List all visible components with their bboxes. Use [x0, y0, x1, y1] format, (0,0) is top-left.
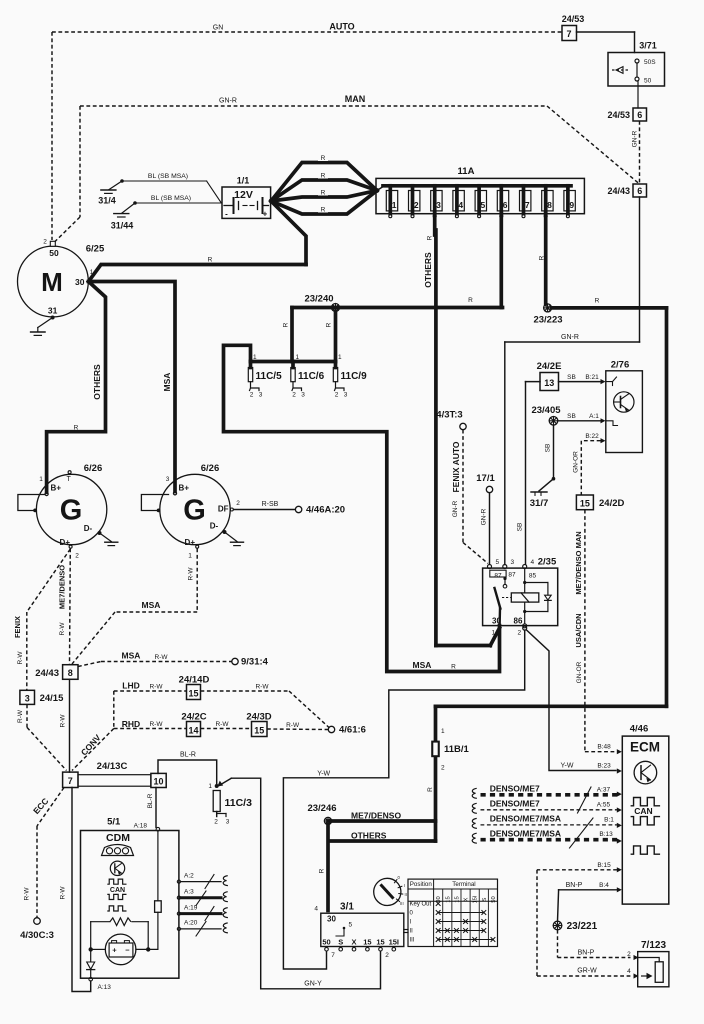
svg-text:15I: 15I [473, 895, 479, 903]
svg-text:11B/1: 11B/1 [444, 744, 470, 755]
svg-text:A:18: A:18 [134, 823, 148, 830]
svg-text:87: 87 [508, 571, 516, 578]
svg-text:SB: SB [516, 523, 523, 532]
svg-text:24/43: 24/43 [607, 186, 630, 196]
svg-text:11C/3: 11C/3 [225, 797, 253, 809]
svg-text:GN-OR: GN-OR [572, 451, 579, 473]
svg-text:11C/5: 11C/5 [256, 371, 283, 382]
svg-text:31: 31 [48, 306, 58, 316]
svg-text:+: + [112, 946, 117, 955]
svg-text:2: 2 [518, 630, 522, 637]
svg-text:GN-R: GN-R [632, 130, 639, 147]
svg-text:R: R [427, 235, 434, 240]
svg-text:ME7/DENSO: ME7/DENSO [58, 565, 67, 609]
svg-text:15: 15 [445, 896, 451, 902]
svg-text:R-W: R-W [17, 651, 24, 665]
svg-text:14: 14 [188, 726, 198, 736]
svg-text:23/246: 23/246 [307, 803, 336, 814]
svg-text:OTHERS: OTHERS [423, 252, 433, 288]
svg-text:11C/6: 11C/6 [298, 371, 325, 382]
svg-text:ECM: ECM [630, 740, 660, 755]
svg-text:4: 4 [531, 559, 535, 566]
svg-text:B:1: B:1 [604, 816, 614, 823]
svg-text:1: 1 [39, 476, 43, 483]
svg-text:ECC: ECC [31, 796, 50, 816]
svg-text:Y-W: Y-W [317, 771, 330, 778]
svg-text:D-: D- [210, 522, 219, 531]
svg-text:23/240: 23/240 [304, 294, 333, 305]
svg-text:30: 30 [492, 617, 501, 626]
svg-text:13: 13 [544, 378, 554, 388]
svg-text:4: 4 [314, 906, 318, 913]
svg-text:2: 2 [335, 392, 339, 399]
svg-text:R-W: R-W [256, 684, 270, 691]
svg-text:RHD: RHD [122, 719, 140, 729]
svg-text:BL (SB MSA): BL (SB MSA) [148, 173, 188, 180]
svg-text:BL-R: BL-R [180, 752, 196, 759]
svg-text:R: R [321, 190, 326, 197]
svg-text:5/1: 5/1 [107, 817, 121, 828]
svg-text:6/25: 6/25 [86, 244, 105, 255]
svg-text:5: 5 [481, 200, 486, 210]
svg-text:1: 1 [188, 553, 192, 560]
svg-text:ME7/DENSO: ME7/DENSO [351, 811, 401, 821]
svg-text:FENIX: FENIX [13, 616, 22, 638]
svg-text:USA/CDN: USA/CDN [574, 613, 583, 647]
svg-text:6: 6 [637, 186, 642, 196]
svg-text:S: S [338, 938, 343, 947]
svg-text:SB: SB [567, 413, 576, 420]
svg-text:85: 85 [529, 572, 537, 579]
svg-text:S: S [482, 897, 488, 901]
svg-text:G: G [183, 495, 206, 527]
svg-text:A:13: A:13 [98, 984, 112, 991]
svg-text:8: 8 [68, 668, 73, 678]
svg-text:3: 3 [344, 392, 348, 399]
svg-text:-: - [225, 210, 228, 219]
svg-text:B:23: B:23 [597, 763, 611, 770]
svg-text:7/123: 7/123 [641, 940, 666, 951]
svg-text:4: 4 [458, 200, 463, 210]
svg-text:3: 3 [226, 819, 230, 826]
svg-text:R-W: R-W [286, 722, 300, 729]
svg-text:MSA: MSA [162, 373, 172, 392]
svg-text:1: 1 [492, 630, 496, 637]
svg-text:Position: Position [410, 881, 433, 888]
svg-text:9/31:4: 9/31:4 [241, 657, 269, 668]
svg-text:4/30C:3: 4/30C:3 [20, 930, 54, 941]
svg-text:86: 86 [514, 617, 523, 626]
svg-text:+: + [263, 210, 268, 219]
svg-text:1: 1 [338, 354, 342, 361]
svg-text:CAN: CAN [634, 806, 652, 816]
svg-text:B+: B+ [179, 484, 190, 493]
svg-text:III: III [400, 901, 404, 906]
svg-text:R: R [321, 207, 326, 214]
svg-text:2: 2 [292, 392, 296, 399]
svg-text:24/2D: 24/2D [599, 498, 624, 509]
svg-text:4/46: 4/46 [630, 724, 649, 735]
svg-text:R-W: R-W [150, 684, 164, 691]
svg-text:1/1: 1/1 [237, 176, 250, 186]
svg-text:15I: 15I [389, 938, 399, 947]
svg-text:FENIX AUTO: FENIX AUTO [451, 441, 461, 492]
svg-text:SB: SB [567, 374, 576, 381]
svg-text:B:4: B:4 [599, 882, 609, 889]
svg-text:15: 15 [363, 938, 371, 947]
svg-text:BL (SB MSA): BL (SB MSA) [151, 195, 191, 202]
svg-text:Key Out: Key Out [410, 902, 432, 908]
svg-text:BL-R: BL-R [147, 793, 154, 808]
svg-text:Y-W: Y-W [561, 763, 574, 770]
svg-text:10: 10 [153, 777, 163, 787]
svg-text:31/44: 31/44 [111, 221, 134, 231]
svg-text:MSA: MSA [122, 651, 141, 661]
svg-text:87: 87 [494, 572, 502, 579]
svg-text:A:1: A:1 [589, 413, 599, 420]
svg-text:4: 4 [627, 968, 631, 975]
svg-text:3/1: 3/1 [340, 902, 354, 913]
svg-text:23/405: 23/405 [531, 405, 561, 416]
svg-text:R: R [538, 255, 545, 260]
svg-text:CAN: CAN [110, 887, 125, 894]
svg-text:2: 2 [214, 819, 218, 826]
svg-text:R-W: R-W [17, 709, 24, 723]
svg-text:1: 1 [208, 783, 212, 790]
svg-text:R: R [451, 664, 456, 671]
svg-text:1: 1 [296, 354, 300, 361]
svg-text:15: 15 [580, 498, 590, 508]
svg-text:III: III [410, 938, 415, 944]
svg-text:6: 6 [637, 110, 642, 120]
svg-text:R-W: R-W [59, 886, 66, 900]
svg-text:A:2: A:2 [184, 872, 194, 879]
svg-text:GN-R: GN-R [480, 508, 487, 525]
svg-text:1: 1 [441, 728, 445, 735]
svg-text:11A: 11A [458, 166, 475, 177]
svg-text:24/15: 24/15 [40, 693, 64, 704]
svg-text:LHD: LHD [122, 681, 139, 691]
svg-text:BN-P: BN-P [578, 950, 595, 957]
svg-text:GN-R: GN-R [219, 98, 237, 105]
svg-text:R: R [283, 322, 290, 327]
svg-text:B:15: B:15 [597, 862, 611, 869]
svg-text:2/76: 2/76 [611, 360, 630, 371]
svg-text:6: 6 [503, 200, 508, 210]
svg-text:CONV: CONV [79, 732, 103, 757]
svg-text:X: X [351, 938, 356, 947]
svg-text:50: 50 [644, 78, 652, 85]
svg-text:B+: B+ [51, 484, 62, 493]
svg-text:1: 1 [253, 354, 257, 361]
svg-text:50: 50 [491, 896, 497, 902]
svg-text:30: 30 [327, 915, 336, 924]
svg-text:M: M [41, 267, 63, 297]
svg-text:3: 3 [511, 559, 515, 566]
svg-text:OTHERS: OTHERS [92, 364, 102, 400]
svg-text:15: 15 [376, 938, 384, 947]
svg-text:GN: GN [213, 25, 224, 32]
svg-text:2: 2 [236, 500, 240, 507]
svg-text:A:20: A:20 [184, 920, 198, 927]
svg-text:24/53: 24/53 [562, 14, 585, 24]
svg-text:R: R [468, 297, 473, 304]
svg-text:2/35: 2/35 [538, 557, 557, 568]
svg-text:3: 3 [166, 476, 170, 483]
svg-text:A:55: A:55 [597, 801, 611, 808]
svg-text:24/43: 24/43 [35, 668, 59, 679]
svg-text:R-W: R-W [155, 654, 169, 661]
svg-text:15: 15 [254, 726, 264, 736]
svg-text:DENSO/ME7: DENSO/ME7 [490, 799, 540, 809]
svg-text:3/71: 3/71 [639, 41, 657, 51]
svg-text:B:22: B:22 [585, 433, 599, 440]
svg-text:15: 15 [188, 689, 198, 699]
svg-text:8: 8 [547, 200, 552, 210]
svg-text:4/61:6: 4/61:6 [339, 725, 366, 736]
svg-text:15: 15 [454, 896, 460, 902]
svg-text:R-W: R-W [150, 721, 164, 728]
svg-text:2: 2 [385, 952, 389, 959]
svg-text:31/7: 31/7 [530, 498, 549, 509]
svg-text:Terminal: Terminal [452, 881, 475, 888]
svg-text:50: 50 [49, 248, 59, 258]
svg-text:24/2E: 24/2E [537, 361, 562, 372]
svg-text:GR-W: GR-W [577, 968, 597, 975]
svg-text:A:37: A:37 [597, 786, 611, 793]
svg-text:X: X [464, 897, 470, 901]
svg-text:R: R [326, 322, 333, 327]
svg-text:23/221: 23/221 [567, 921, 598, 932]
svg-text:11C/9: 11C/9 [341, 371, 368, 382]
svg-text:R-W: R-W [60, 714, 67, 728]
svg-text:50S: 50S [644, 59, 656, 66]
svg-text:GN-R: GN-R [561, 334, 579, 341]
svg-text:II: II [404, 892, 406, 897]
svg-text:D+: D+ [60, 538, 71, 547]
svg-text:CDM: CDM [106, 832, 130, 844]
svg-text:R: R [318, 868, 325, 873]
svg-text:50: 50 [322, 938, 330, 947]
svg-text:2: 2 [75, 553, 79, 560]
svg-text:2: 2 [627, 951, 631, 958]
svg-text:G: G [60, 495, 83, 527]
svg-text:D+: D+ [185, 538, 196, 547]
svg-text:R-W: R-W [24, 887, 31, 901]
svg-text:R-W: R-W [188, 567, 195, 581]
svg-text:B:13: B:13 [599, 831, 613, 838]
svg-text:7: 7 [68, 776, 73, 786]
svg-text:OTHERS: OTHERS [351, 831, 387, 841]
svg-text:2: 2 [250, 392, 254, 399]
svg-text:II: II [410, 929, 414, 935]
svg-text:7: 7 [331, 952, 335, 959]
svg-text:17/1: 17/1 [476, 473, 495, 484]
svg-text:6/26: 6/26 [84, 463, 103, 474]
svg-text:5: 5 [349, 922, 353, 929]
svg-text:9: 9 [569, 200, 574, 210]
svg-text:3: 3 [436, 200, 441, 210]
svg-text:3: 3 [301, 392, 305, 399]
svg-text:12V: 12V [234, 189, 253, 201]
svg-text:24/53: 24/53 [607, 110, 630, 120]
svg-text:24/13C: 24/13C [97, 761, 128, 772]
svg-text:I: I [410, 920, 412, 926]
svg-text:R: R [595, 298, 600, 305]
svg-text:23/223: 23/223 [533, 315, 562, 326]
svg-text:2: 2 [414, 200, 419, 210]
svg-text:R-W: R-W [216, 721, 230, 728]
svg-text:DENSO/ME7: DENSO/ME7 [490, 784, 540, 794]
svg-text:A:3: A:3 [184, 889, 194, 896]
svg-text:30: 30 [75, 277, 85, 287]
svg-text:4/3T:3: 4/3T:3 [436, 410, 462, 421]
svg-text:T: T [66, 476, 71, 483]
svg-text:B:21: B:21 [585, 374, 599, 381]
svg-text:GN-Y: GN-Y [304, 981, 322, 988]
svg-text:−: − [125, 946, 130, 955]
svg-text:R: R [321, 155, 326, 162]
svg-text:GN-OR: GN-OR [576, 661, 583, 683]
svg-text:D-: D- [84, 524, 93, 533]
svg-text:MSA: MSA [413, 660, 432, 670]
svg-text:BN-P: BN-P [566, 882, 583, 889]
svg-text:DENSO/ME7/MSA: DENSO/ME7/MSA [490, 814, 561, 824]
svg-text:7: 7 [566, 29, 571, 39]
svg-text:MSA: MSA [142, 600, 161, 610]
svg-text:0: 0 [398, 875, 401, 880]
svg-text:DENSO/ME7/MSA: DENSO/ME7/MSA [490, 828, 561, 838]
svg-text:DF: DF [218, 505, 229, 514]
svg-text:ME7/DENSO MAN: ME7/DENSO MAN [574, 531, 583, 594]
svg-text:6/26: 6/26 [201, 463, 220, 474]
svg-text:R: R [427, 787, 434, 792]
svg-text:I: I [404, 883, 405, 888]
svg-text:5: 5 [496, 559, 500, 566]
svg-text:2: 2 [441, 765, 445, 772]
svg-text:SB: SB [544, 444, 551, 453]
svg-text:1: 1 [392, 200, 397, 210]
svg-text:R-SB: R-SB [262, 501, 279, 508]
svg-text:GN-R: GN-R [452, 500, 459, 517]
svg-text:3: 3 [259, 392, 263, 399]
svg-text:0: 0 [410, 911, 414, 917]
svg-text:31/4: 31/4 [98, 196, 116, 206]
svg-text:R: R [321, 173, 326, 180]
svg-text:R: R [74, 425, 79, 432]
svg-text:3: 3 [25, 694, 30, 704]
svg-text:AUTO: AUTO [329, 22, 354, 32]
svg-text:R-W: R-W [59, 622, 66, 636]
svg-text:MAN: MAN [345, 94, 366, 104]
svg-text:R: R [208, 257, 213, 264]
svg-text:7: 7 [525, 200, 530, 210]
svg-text:B:48: B:48 [597, 744, 611, 751]
svg-text:2: 2 [43, 239, 47, 246]
svg-text:4/46A:20: 4/46A:20 [306, 505, 345, 516]
